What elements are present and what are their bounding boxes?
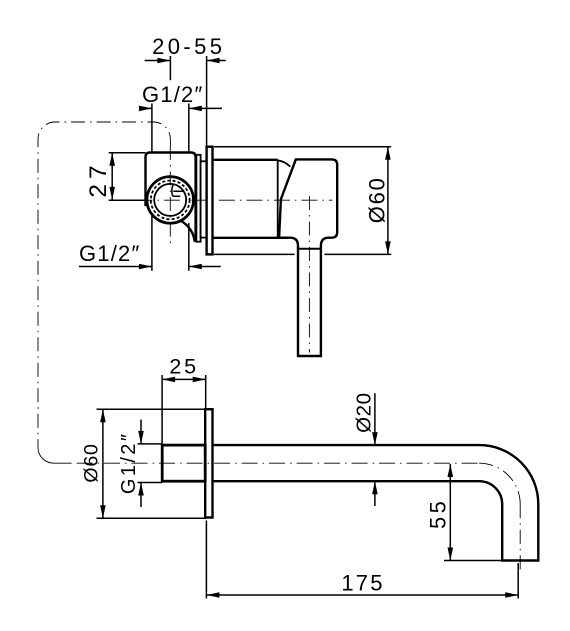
- wall plate (edge view, bottom): [205, 409, 212, 517]
- svg-text:G1/2″: G1/2″: [142, 82, 203, 107]
- lever collar line: [298, 248, 321, 250]
- dim 20-55 center tick: [169, 56, 171, 80]
- dim D20 line top: [374, 393, 376, 445]
- dim D60 bottom line: [102, 409, 104, 518]
- svg-text:27: 27: [85, 160, 112, 197]
- cartridge stop notch: [172, 185, 173, 196]
- dim D60 top arrow down: [385, 241, 391, 254]
- lever vertical centerline: [308, 196, 310, 353]
- svg-text:G1/2″: G1/2″: [118, 432, 140, 494]
- svg-text:Ø60: Ø60: [80, 443, 102, 482]
- dim 27 top arrow: [109, 153, 115, 166]
- dim D20 arrow up: [372, 481, 378, 494]
- sleeve shoulder curve: [278, 160, 291, 167]
- dim 175 right arrow: [505, 592, 518, 598]
- cartridge ring 2: [201, 161, 207, 237]
- dim G1/2 lower line left: [79, 266, 152, 268]
- svg-text:25: 25: [169, 355, 199, 379]
- escutcheon sleeve bottom edge: [213, 237, 289, 239]
- dim G1/2 bottom arrow up: [138, 483, 144, 496]
- dim 55 extension bottom: [444, 560, 502, 562]
- D60 extension bottom: [214, 253, 295, 255]
- spout centerline bend: [479, 463, 520, 504]
- dim D20 line bottom: [374, 481, 376, 506]
- dim 20-55 line right: [207, 60, 226, 62]
- dim 25 right arrow: [193, 377, 206, 383]
- dim 20-55 right arrow: [207, 58, 220, 64]
- handle knob and lever outline: [279, 159, 337, 356]
- dim 27 extension bottom (solid over CL): [109, 199, 146, 201]
- valve horizontal centerline: [109, 199, 333, 201]
- dim 175 extension right: [517, 563, 519, 599]
- G1/2 top extension left: [151, 104, 153, 153]
- dim D60 bottom arrow up: [100, 409, 106, 422]
- dim D60 top arrow up: [385, 147, 391, 160]
- dim G1/2 bottom line top: [140, 420, 142, 444]
- dim 55 line: [449, 464, 451, 561]
- dim G1/2 bottom arrow down: [138, 431, 144, 444]
- D60 bottom extension bottom: [97, 517, 207, 519]
- svg-text:G1/2″: G1/2″: [79, 241, 140, 266]
- D60 extension top: [214, 146, 391, 148]
- threaded socket (thick): [162, 445, 205, 481]
- spout horizontal centerline: [77, 462, 480, 464]
- centerline border path (dash-dot frame connecting valve axis to spout axis): [38, 122, 170, 447]
- valve vertical centerline: [169, 146, 171, 248]
- dim D60 top line: [387, 147, 389, 255]
- dim D20 arrow down: [372, 432, 378, 445]
- dim 20-55 left arrow: [157, 58, 170, 64]
- centerline border corner (solid): [38, 447, 72, 463]
- G1/2 bottom extension bottom: [138, 482, 163, 484]
- dim 27 line: [111, 153, 113, 200]
- dim 25 left arrow: [162, 377, 175, 383]
- dim 25 line: [162, 378, 206, 380]
- dim G1/2 bottom line bottom: [140, 483, 142, 508]
- G1/2 top extension right: [188, 104, 190, 153]
- plate extension line up: [206, 56, 208, 147]
- valve body outline: [146, 153, 196, 243]
- dim G1/2 lower left arrow: [139, 264, 152, 270]
- dim G1/2 top left arrow: [139, 106, 152, 112]
- dim G1/2 top right arrow: [189, 106, 202, 112]
- svg-text:55: 55: [425, 498, 450, 529]
- D60 bottom extension top: [97, 408, 206, 410]
- dim G1/2 lower right arrow: [189, 264, 202, 270]
- dim 27 bottom arrow: [109, 187, 115, 200]
- G1/2 lower extension left: [151, 216, 153, 271]
- dim G1/2 top line left: [140, 107, 152, 109]
- escutcheon sleeve top edge: [213, 159, 278, 161]
- dim 175 left arrow: [206, 592, 219, 598]
- G1/2 lower extension right: [188, 223, 190, 271]
- dim 55 arrow up: [448, 464, 454, 477]
- escutcheon sleeve right edge: [277, 160, 279, 238]
- dim 27 extension top: [109, 152, 146, 154]
- dim G1/2 top line right: [189, 107, 222, 109]
- svg-text:Ø60: Ø60: [365, 176, 390, 223]
- inlet port outer circle: [147, 177, 194, 224]
- dim 175 line: [206, 594, 518, 596]
- cartridge ring 1: [196, 155, 200, 242]
- dim G1/2 lower line right: [189, 266, 221, 268]
- dim 55 arrow down: [448, 548, 454, 561]
- svg-text:175: 175: [341, 571, 384, 596]
- svg-text:20-55: 20-55: [152, 34, 225, 59]
- spout tip vertical centerline: [519, 504, 521, 571]
- spout tube outline: [213, 445, 539, 560]
- dim 20-55 line left: [145, 60, 171, 62]
- inlet port thread circle: [151, 181, 190, 220]
- G1/2 bottom extension top: [138, 443, 163, 445]
- dim 25 extension right: [205, 375, 207, 409]
- dim 25 extension left: [161, 375, 163, 444]
- dim 175 extension left: [205, 521, 207, 599]
- svg-text:Ø20: Ø20: [352, 392, 375, 433]
- inlet port inner circle: [154, 184, 186, 216]
- wall plate (edge view, top): [207, 147, 213, 255]
- valve body beak transition: [181, 221, 195, 242]
- dim D60 bottom arrow down: [100, 505, 106, 518]
